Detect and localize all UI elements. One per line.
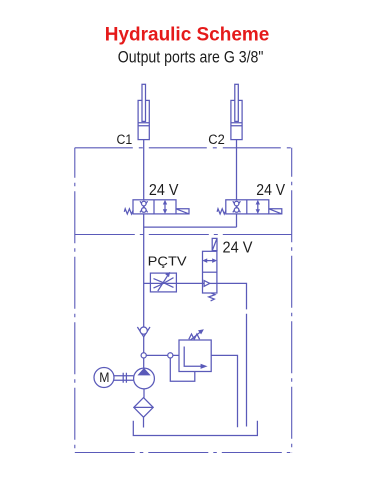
valve V2 solenoid <box>269 209 282 214</box>
shaft coupling <box>114 373 133 383</box>
svg-text:24 V: 24 V <box>149 182 179 199</box>
valve V1 body <box>124 200 189 214</box>
check valve CV <box>137 327 150 337</box>
wire valve3 to tank <box>217 283 247 426</box>
svg-text:24 V: 24 V <box>256 182 285 199</box>
valve V2 arrow <box>257 203 259 211</box>
wire pctv branch <box>144 282 203 284</box>
enclosure boundary box (dash-dot) <box>75 148 292 453</box>
enclosure right edge <box>291 148 293 453</box>
svg-text:24 V: 24 V <box>223 240 254 257</box>
valve V2 check symbol <box>233 201 241 212</box>
enclosure left edge <box>74 148 76 453</box>
valve V3 solenoid <box>212 238 217 250</box>
valve V3 spring <box>209 293 215 301</box>
valve V1 check symbol <box>140 201 148 212</box>
enclosure divider line <box>75 234 209 236</box>
relief valve RV <box>170 330 237 427</box>
wire pump suction <box>143 389 145 398</box>
wire pump to node <box>143 358 145 368</box>
motor M1 <box>94 368 114 388</box>
valve V1 arrow <box>164 203 166 211</box>
svg-text:C1: C1 <box>117 132 133 147</box>
wire valve outputs connector <box>144 226 237 228</box>
wire check valve to node <box>143 337 145 353</box>
valve V1 solenoid <box>176 209 189 214</box>
valve V2 spring <box>217 209 226 214</box>
wire relief outlet <box>211 355 237 427</box>
enclosure top edge <box>75 147 292 149</box>
wire C2 vertical line <box>236 140 238 228</box>
relief pilot loop <box>170 358 195 381</box>
valve V2 body <box>217 200 282 214</box>
node N1 <box>141 353 146 358</box>
wire C1 vertical line <box>143 140 145 328</box>
coupling C1 <box>138 84 149 139</box>
enclosure bottom edge <box>75 452 292 454</box>
relief valve arrow <box>191 332 201 340</box>
svg-text:M: M <box>99 370 109 385</box>
valve V3 top arrow <box>206 260 215 262</box>
wire filter drain <box>143 417 145 427</box>
svg-text:Hydraulic Scheme: Hydraulic Scheme <box>105 24 269 46</box>
wire relief inlet <box>146 354 179 356</box>
throttle valve PCTV <box>150 273 176 292</box>
coupling C2 <box>231 84 242 139</box>
svg-text:Output ports are G 3/8": Output ports are G 3/8" <box>118 48 264 67</box>
svg-text:C2: C2 <box>208 132 225 147</box>
valve V3 (3/2 solenoid) <box>203 238 218 301</box>
svg-text:PÇTV: PÇTV <box>148 254 187 269</box>
tank <box>133 421 257 436</box>
node N2 <box>168 353 173 358</box>
relief valve spring <box>189 334 200 339</box>
pump P1 <box>134 368 155 389</box>
filter F1 <box>134 398 153 418</box>
valve V1 spring <box>124 209 133 214</box>
valve V3 flow path <box>203 282 217 284</box>
